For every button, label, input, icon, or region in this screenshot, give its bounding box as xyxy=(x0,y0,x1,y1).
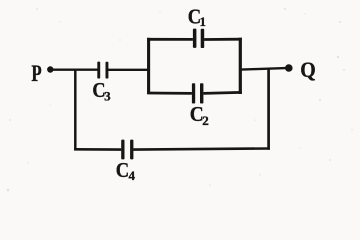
wire P to C3 xyxy=(53,68,98,70)
wire: junction before Q down to C4 branch xyxy=(267,68,270,150)
capacitor C3 xyxy=(97,62,100,79)
svg-text:1: 1 xyxy=(200,14,207,29)
svg-text:P: P xyxy=(31,61,41,86)
wire: junction at node after P down to C4 branch xyxy=(74,69,77,151)
wire C3 to box left xyxy=(108,69,148,71)
wire: parallel-branch right riser xyxy=(239,38,242,94)
capacitor C2 xyxy=(192,83,195,103)
wire: bottom branch left segment (to C2) xyxy=(147,92,192,95)
capacitor C4 xyxy=(121,140,124,160)
wire: top branch right segment (from C1) xyxy=(204,38,242,41)
node Q (terminal dot) xyxy=(285,64,293,72)
svg-text:3: 3 xyxy=(104,89,111,104)
paper speckles (noise) xyxy=(7,8,353,191)
wire: parallel branch to node Q xyxy=(241,68,286,70)
wire: top branch left segment (to C1) xyxy=(147,38,193,41)
capacitor C1 xyxy=(193,29,197,48)
wire: C4 branch left segment xyxy=(74,148,121,151)
svg-text:4: 4 xyxy=(129,168,136,183)
svg-text:2: 2 xyxy=(202,113,209,128)
svg-text:Q: Q xyxy=(300,57,316,82)
wire: C4 branch right segment xyxy=(133,149,270,150)
svg-text:C: C xyxy=(116,158,129,182)
node P (terminal dot) xyxy=(47,66,53,72)
wire: bottom branch right segment (from C2) xyxy=(203,92,241,93)
wire: parallel-branch left riser xyxy=(147,38,150,94)
